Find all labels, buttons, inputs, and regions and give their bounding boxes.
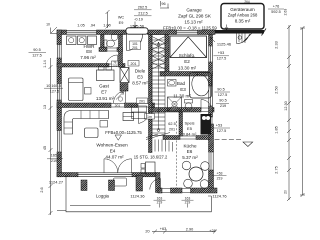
svg-text:13.30 m²: 13.30 m² (178, 66, 197, 71)
Gast nightstand (85, 88, 92, 95)
svg-text:10 165.5: 10 165.5 (46, 84, 61, 88)
top edge tick marks (160, 1, 169, 8)
svg-text:127.5: 127.5 (217, 57, 227, 61)
Geraeteraum box (221, 4, 264, 30)
svg-text:E5: E5 (187, 126, 193, 131)
svg-text:2.6: 2.6 (40, 187, 44, 192)
french door arcs terrace (104, 159, 132, 173)
door arc Gast north (106, 55, 118, 67)
svg-text:201: 201 (139, 100, 145, 104)
svg-text:11.30 m²: 11.30 m² (173, 94, 191, 99)
svg-text:201: 201 (131, 62, 137, 66)
terrace mat outside (114, 178, 127, 186)
svg-text:Wohnen-Essen: Wohnen-Essen (96, 143, 128, 148)
wall top exterior segment B (97, 30, 127, 35)
svg-text:8.57 m²: 8.57 m² (132, 81, 148, 86)
svg-text:Schlafg.: Schlafg. (179, 53, 196, 58)
wall Gast-Wohnen segment A (57, 103, 111, 108)
stair shaft outline (152, 35, 165, 136)
door gap kueche SW thin lines (162, 189, 171, 193)
wall Kueche top segment B (196, 136, 209, 140)
door gap to Wohnen thin lines (138, 104, 151, 108)
wall interior HWR bottom segment A (57, 64, 109, 68)
stair X lattice upper (152, 37, 165, 70)
wall Speis right small (179, 112, 183, 136)
svg-text:20: 20 (145, 230, 149, 234)
wall Bad top (160, 72, 213, 77)
wall top exterior segment C (148, 30, 177, 35)
Wohnen dining table (146, 162, 156, 174)
svg-text:10: 10 (46, 23, 50, 27)
svg-text:-0.19: -0.19 (134, 18, 143, 22)
wall WC bottom segment A (99, 48, 107, 52)
svg-text:1125.46: 1125.46 (217, 42, 232, 47)
window Wohnen left (thin lines) (57, 131, 61, 153)
svg-text:E8: E8 (86, 49, 92, 54)
svg-text:+76: +76 (273, 5, 279, 9)
top mini dim line WC (106, 10, 110, 29)
svg-text:201: 201 (112, 63, 117, 67)
wall east exterior segment A (209, 35, 213, 47)
wall Gast-Wohnen segment C (151, 103, 155, 108)
Kueche tech shaft black box (201, 114, 212, 135)
terrace step left (57, 210, 66, 212)
dim ticks right B (301, 26, 305, 197)
leader arrow 1125.46 (211, 38, 216, 43)
wall left exterior segment B (57, 58, 62, 84)
WC level down arrow (134, 22, 137, 29)
svg-text:44.07 m²: 44.07 m² (105, 154, 124, 159)
svg-text:1125.56: 1125.56 (130, 23, 145, 28)
svg-text:E9: E9 (119, 21, 124, 25)
svg-text:+53: +53 (218, 51, 224, 55)
window Schlafen east thin lines (209, 46, 213, 62)
wall stair right (Schlafen left) (165, 35, 169, 73)
svg-text:90.5: 90.5 (33, 48, 40, 52)
svg-text:E7: E7 (101, 90, 107, 95)
wall WC bottom segment B (117, 48, 123, 52)
door gap Bad thin lines (201, 108, 211, 112)
Bad bathtub (190, 73, 212, 99)
dining chairs (141, 164, 145, 169)
Gast desk (97, 70, 115, 81)
Kueche round table (189, 167, 203, 181)
door arc into Wohnen (139, 108, 152, 124)
loggia column B (109, 180, 115, 191)
svg-text:219: 219 (157, 200, 163, 204)
tiny gast door label 60 (118, 97, 122, 101)
Wohnen sideboard (123, 113, 134, 121)
wall stair left (149, 35, 153, 153)
stair walk line with arrow (157, 42, 160, 130)
dim line right B (300, 28, 305, 195)
dim line left vertical (50, 58, 52, 215)
tag box entry door (130, 41, 141, 50)
kueche west door arc (150, 179, 161, 190)
HWR appliance washer (67, 36, 77, 45)
dim line right A (288, 25, 290, 200)
wall Wohnen bottom segment B (132, 173, 156, 177)
svg-text:127.5: 127.5 (50, 90, 60, 94)
svg-text:96: 96 (161, 2, 165, 6)
opening with size label thin lines (111, 104, 125, 108)
door gap HWR-Gast wall thin lines (109, 64, 121, 67)
window Bad east thin lines (209, 86, 213, 106)
svg-text:90.5: 90.5 (219, 99, 226, 103)
svg-text:2.90: 2.90 (186, 228, 193, 232)
wall Kueche bottom segment A (158, 188, 162, 193)
tag box gast north (128, 61, 139, 67)
fraction rule 262.5 (134, 10, 152, 16)
wall left exterior segment A (57, 30, 62, 45)
window HWR top (thin lines) (67, 30, 98, 34)
terrace line inner (70, 205, 151, 207)
wall entry left (WC right) (119, 35, 123, 68)
svg-text:127.5: 127.5 (218, 93, 228, 97)
Bad washbasin (168, 80, 177, 87)
svg-text:FFB±0.00=1125.75: FFB±0.00=1125.75 (105, 130, 142, 135)
svg-text:219: 219 (217, 177, 223, 181)
terrace outline outer (66, 175, 211, 212)
door gap east thin lines (209, 117, 212, 124)
svg-text:Gast: Gast (99, 84, 109, 89)
opening Kueche thin lines (180, 136, 196, 139)
window HWR left (thin lines) (57, 45, 61, 59)
wall WC left (101, 35, 105, 51)
terrace window-door band thin lines (78, 173, 132, 177)
Wohnen side table (100, 121, 108, 128)
svg-text:127.5: 127.5 (217, 129, 227, 133)
svg-text:165.5: 165.5 (51, 154, 61, 158)
chimney block with X (120, 68, 129, 83)
svg-text:0.84 m²: 0.84 m² (183, 132, 197, 137)
corner tick top-left (51, 27, 58, 34)
svg-text:Diele: Diele (135, 69, 146, 74)
garage level down arrow (225, 25, 228, 31)
window garage top (thin lines) (177, 30, 198, 34)
Kueche chair SW (184, 179, 193, 188)
svg-text:201: 201 (169, 128, 175, 132)
wall Kueche west (156, 173, 161, 193)
wall interior HWR bottom segment B (121, 64, 125, 68)
svg-text:E3: E3 (180, 87, 186, 92)
dim ticks left (49, 65, 53, 215)
svg-text:FFB±0.00 = -0.18 = 1125.59: FFB±0.00 = -0.18 = 1125.59 (163, 26, 217, 31)
svg-text:13.91 m²: 13.91 m² (96, 96, 115, 101)
svg-text:90.5: 90.5 (217, 88, 224, 92)
Diele wardrobe (132, 106, 147, 112)
entrance step outside (126, 28, 148, 34)
svg-text:+53: +53 (216, 124, 222, 128)
tag box wohnen door (137, 98, 148, 104)
svg-text:15.13 m²: 15.13 m² (184, 20, 203, 25)
Gast bed (69, 78, 84, 101)
wall Kueche bottom segment B (171, 188, 183, 193)
tag box stair door (145, 114, 155, 120)
wall Bad bottom segment A (149, 108, 202, 113)
svg-text:127.5: 127.5 (32, 54, 42, 58)
svg-text:Loggia: Loggia (96, 194, 110, 199)
svg-text:Zapf GL 298 SK: Zapf GL 298 SK (178, 14, 212, 19)
door gap ticks below kueche wall (160, 204, 188, 208)
svg-text:E3: E3 (137, 75, 143, 80)
svg-text:5.37 m²: 5.37 m² (182, 155, 198, 160)
loggia column C corner (136, 176, 143, 192)
Wohnen coffee table (85, 128, 99, 138)
svg-text:WC: WC (118, 16, 125, 20)
HWR sink unit (88, 36, 97, 45)
tag box gast north small (112, 61, 119, 67)
bottom dim ticks (153, 230, 217, 234)
svg-text:219: 219 (51, 159, 57, 163)
Kueche chair NW (182, 161, 191, 170)
svg-text:Küche: Küche (183, 144, 196, 149)
HWR appliance dryer (78, 36, 87, 45)
door arc Gast east (114, 91, 126, 103)
svg-text:2.75: 2.75 (275, 166, 279, 173)
loggia column A (81, 180, 87, 191)
Kueche chair NE (201, 162, 210, 171)
svg-text:264: 264 (244, 0, 250, 4)
wall Gast-Wohnen segment B (125, 103, 139, 108)
bench mark level line with triangle (215, 139, 242, 141)
FFB level arrow living (115, 135, 122, 140)
svg-text:Geräteraum: Geräteraum (230, 7, 255, 12)
svg-text:1.14: 1.14 (43, 60, 47, 67)
svg-text:62.5: 62.5 (168, 122, 175, 126)
svg-text:E2: E2 (184, 59, 190, 64)
door gap kueche SE thin lines (182, 189, 191, 193)
wall left exterior segment D (57, 152, 62, 177)
svg-text:Garage: Garage (186, 8, 202, 13)
svg-text:7.96 m²: 7.96 m² (80, 55, 96, 60)
Schlafen bed rect with roof diagonals (170, 36, 207, 58)
svg-text:.94: .94 (90, 24, 95, 28)
fraction rules dim stacks (29, 9, 285, 200)
entrance door leaf + swing arc (127, 35, 143, 51)
wall Diele left below chimney (120, 84, 128, 92)
svg-text:E4: E4 (110, 148, 116, 153)
svg-text:219: 219 (185, 200, 191, 204)
wall east exterior segment E (209, 170, 214, 193)
exterior stair NE treads (237, 34, 246, 44)
svg-text:262.5: 262.5 (138, 6, 148, 10)
WC toilet tank (104, 40, 107, 47)
stair bottom turned steps (155, 140, 173, 152)
wall top garage solid black part (215, 30, 264, 34)
svg-text:2.63: 2.63 (284, 9, 288, 16)
svg-text:219: 219 (220, 104, 226, 108)
Gast chairs (99, 67, 105, 71)
svg-text:201: 201 (115, 104, 121, 108)
svg-text:Speis: Speis (184, 121, 194, 126)
wall top exterior segment D (198, 30, 216, 35)
svg-text:2.33: 2.33 (275, 41, 279, 48)
wall east exterior segment B (209, 62, 213, 86)
svg-text:201: 201 (132, 46, 138, 50)
svg-text:212.5: 212.5 (138, 12, 148, 16)
stair cut line diagonal (146, 133, 170, 140)
svg-text:12.30: 12.30 (284, 101, 288, 111)
svg-text:+63: +63 (160, 227, 166, 231)
svg-text:1.05: 1.05 (77, 24, 84, 28)
area arrow gast text (116, 92, 124, 100)
svg-text:45: 45 (43, 146, 47, 150)
kueche dashed divider line (176, 121, 178, 188)
svg-text:1124.36: 1124.36 (130, 194, 145, 199)
wall Wohnen bottom segment A (57, 173, 78, 177)
wall Kueche bottom segment C (191, 188, 218, 193)
svg-text:E6: E6 (187, 149, 193, 154)
door arc into Bad (201, 100, 212, 111)
Kueche chair SE (200, 180, 209, 189)
svg-text:592.5: 592.5 (271, 10, 281, 14)
svg-text:+28: +28 (209, 229, 215, 233)
Bad shower (168, 97, 182, 111)
wall east exterior segment D (209, 124, 214, 152)
window Kueche east thin lines (209, 152, 213, 170)
wall Bad bottom segment B (211, 108, 214, 113)
svg-text:15 STG. 18.6/27.2: 15 STG. 18.6/27.2 (134, 154, 168, 159)
WC washbasin (112, 35, 118, 41)
door gap WC thin lines (107, 48, 117, 51)
svg-text:Zapf Anbau 268: Zapf Anbau 268 (228, 13, 258, 18)
wall Kueche top segment A (163, 136, 180, 140)
svg-text:1m: 1m (147, 115, 152, 119)
svg-text:1124.76: 1124.76 (212, 193, 227, 198)
svg-text:+53: +53 (217, 172, 223, 176)
Wohnen corner sofa (64, 111, 109, 135)
wall top exterior segment A (57, 30, 67, 35)
svg-text:Bad: Bad (177, 81, 186, 86)
svg-text:8.35 m²: 8.35 m² (235, 19, 251, 24)
wall east exterior segment C (209, 106, 213, 117)
bottom dim line (152, 231, 215, 233)
wall left exterior segment C (57, 100, 62, 131)
svg-text:2.50: 2.50 (275, 86, 279, 93)
stair treads upper flight (152, 40, 165, 104)
svg-text:1124.27: 1124.27 (49, 180, 64, 185)
WC toilet bowl (107, 40, 115, 47)
svg-text:20: 20 (284, 190, 288, 194)
dim ticks right A (287, 25, 291, 201)
stair lower treads (152, 113, 165, 133)
Bad toilet (185, 100, 193, 104)
svg-text:13: 13 (43, 105, 47, 109)
window Gast left (thin lines) (57, 84, 61, 101)
svg-text:1.85: 1.85 (275, 126, 279, 133)
